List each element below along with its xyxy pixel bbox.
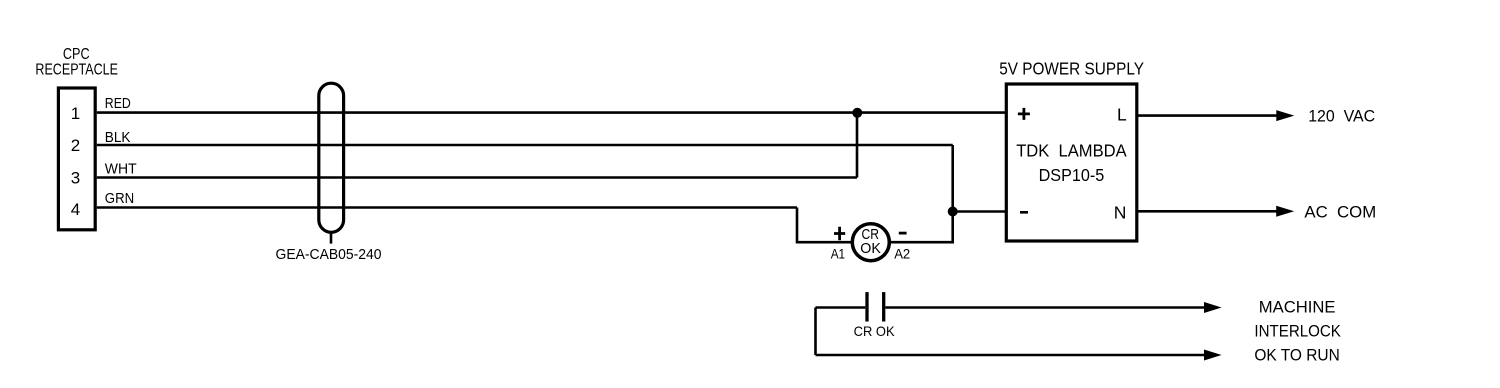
svg-text:DSP10-5: DSP10-5 — [1039, 165, 1105, 185]
wire RED pin1 to power supply + — [97, 111, 1006, 114]
minus sign at A2 — [899, 232, 907, 235]
relay coil CR OK — [852, 224, 889, 261]
arrowhead 120 VAC — [1276, 110, 1294, 121]
svg-text:3: 3 — [71, 169, 80, 188]
svg-text:MACHINE: MACHINE — [1259, 297, 1336, 316]
svg-text:OK TO RUN: OK TO RUN — [1254, 346, 1339, 365]
wire relay A2 lead — [889, 241, 952, 244]
wire BLK pin2 horizontal — [97, 144, 953, 147]
wire N to AC COM — [1138, 210, 1278, 213]
svg-text:L: L — [1117, 104, 1127, 124]
svg-text:5V POWER SUPPLY: 5V POWER SUPPLY — [999, 58, 1144, 78]
wire GRN pin4 horizontal — [97, 206, 797, 209]
svg-text:A1: A1 — [831, 246, 846, 262]
svg-text:4: 4 — [71, 200, 80, 219]
wire relay A1 lead — [797, 241, 852, 244]
minus terminal mark — [1020, 211, 1028, 214]
svg-text:GRN: GRN — [105, 190, 134, 207]
contact CR OK bar 1 — [865, 292, 868, 321]
wire contact to machine interlock arrow — [885, 306, 1205, 309]
svg-text:1: 1 — [71, 104, 80, 123]
power supply U1 box — [1006, 84, 1137, 241]
svg-text:AC COM: AC COM — [1304, 203, 1376, 222]
svg-text:CR OK: CR OK — [854, 323, 896, 339]
cable marker tail — [330, 232, 333, 244]
svg-text:GEA-CAB05-240: GEA-CAB05-240 — [276, 246, 382, 263]
svg-text:INTERLOCK: INTERLOCK — [1254, 322, 1341, 341]
wire BLK drop to relay minus — [951, 145, 954, 244]
svg-text:N: N — [1114, 202, 1127, 222]
svg-text:A2: A2 — [894, 246, 910, 262]
wire junction to power supply minus — [953, 210, 1006, 213]
arrowhead machine interlock — [1204, 302, 1222, 313]
svg-text:CPC: CPC — [63, 46, 90, 63]
connector J1 CPC receptacle box — [58, 88, 95, 230]
wire to contact — [816, 306, 866, 309]
plus terminal mark — [1018, 108, 1030, 120]
svg-text:BLK: BLK — [105, 129, 131, 146]
svg-text:OK: OK — [860, 240, 881, 257]
svg-text:2: 2 — [71, 136, 80, 155]
arrowhead AC COM — [1276, 206, 1294, 217]
wire bottom rail to ok-to-run arrow — [816, 354, 1206, 357]
junction dot on RED wire — [852, 108, 862, 118]
svg-text:RECEPTACLE: RECEPTACLE — [35, 61, 118, 78]
plus sign at A1 — [834, 227, 845, 241]
contact CR OK bar 2 — [882, 292, 885, 321]
svg-text:RED: RED — [105, 95, 131, 112]
svg-text:TDK LAMBDA: TDK LAMBDA — [1016, 140, 1127, 160]
wire WHT pin3 horizontal — [97, 176, 857, 179]
wire WHT riser to RED junction — [856, 113, 859, 178]
junction dot on BLK drop — [948, 207, 958, 217]
svg-text:WHT: WHT — [105, 160, 137, 177]
arrowhead ok to run — [1204, 350, 1222, 361]
wire GRN drop to relay plus — [796, 208, 799, 244]
cable marker oval GEA-CAB05-240 — [319, 83, 344, 232]
svg-text:120 VAC: 120 VAC — [1308, 106, 1375, 125]
wire L to 120 VAC — [1138, 114, 1278, 117]
interlock rail left vertical — [814, 308, 817, 356]
